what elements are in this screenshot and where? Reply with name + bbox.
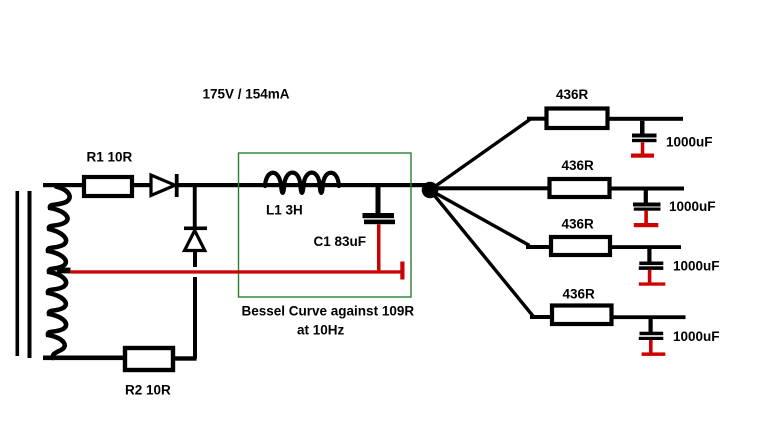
svg-text:1000uF: 1000uF — [669, 199, 716, 214]
wire bottom: transformer to R2 — [43, 356, 125, 361]
red wire end bar — [400, 262, 404, 280]
transformer T1 core line 1 — [16, 191, 20, 356]
wire branch2 horizontal — [430, 186, 548, 190]
capacitor C3 top lead — [644, 191, 648, 204]
svg-text:1000uF: 1000uF — [673, 329, 720, 344]
capacitor C2 top lead — [640, 121, 645, 134]
diode D2 anode lead from main wire — [193, 187, 197, 227]
wire branch1 right — [610, 117, 684, 121]
wire branch4 stub — [530, 315, 550, 319]
transformer T1 winding — [48, 187, 70, 359]
svg-text:1000uF: 1000uF — [673, 259, 720, 274]
resistor R4 — [550, 179, 610, 197]
capacitor C4 top lead — [647, 249, 651, 262]
capacitor C4 top plate — [639, 262, 663, 266]
wire R1 to D1 — [134, 183, 151, 187]
resistor R5 — [551, 237, 610, 255]
transformer centre-tap stub — [57, 268, 71, 274]
capacitor C2 top plate — [632, 134, 657, 138]
svg-text:Bessel Curve against 109R: Bessel Curve against 109R — [242, 304, 415, 319]
wire gap to bottom — [193, 277, 197, 359]
wire branch3 diagonal — [430, 190, 530, 246]
wire R2 right lead — [175, 356, 197, 360]
svg-text:R2 10R: R2 10R — [125, 383, 171, 398]
capacitor C3 red ground bar — [634, 223, 659, 227]
resistor R3 — [547, 109, 608, 129]
capacitor C5 bottom plate — [639, 337, 664, 340]
capacitor C5 red lead — [649, 340, 653, 353]
svg-text:R1 10R: R1 10R — [87, 150, 133, 165]
wire branch4 diagonal — [430, 190, 533, 317]
capacitor C2 red ground bar — [631, 154, 654, 158]
capacitor C1 bottom plate — [364, 220, 395, 225]
wire branch4 right — [614, 315, 686, 319]
svg-text:175V / 154mA: 175V / 154mA — [203, 86, 290, 101]
transformer T1 core line 2 — [28, 191, 32, 358]
capacitor C1 top lead — [376, 187, 381, 214]
capacitor C2 bottom plate — [632, 139, 657, 142]
capacitor C3 red lead — [644, 211, 648, 224]
svg-text:436R: 436R — [556, 87, 589, 102]
svg-text:436R: 436R — [562, 217, 595, 232]
wire branch2 right — [612, 187, 685, 191]
junction node — [422, 182, 439, 199]
capacitor C5 top lead — [649, 319, 653, 332]
wire branch1 diagonal — [430, 119, 531, 190]
capacitor C1 top plate — [363, 213, 395, 218]
svg-text:L1 3H: L1 3H — [266, 203, 303, 218]
diode D1 cathode bar — [175, 174, 179, 197]
inductor L1 — [265, 173, 339, 193]
green analysis box — [239, 153, 412, 297]
resistor R2 — [125, 348, 173, 370]
red centre-tap wire — [70, 270, 405, 273]
wire branch1 stub — [527, 117, 545, 121]
wire D2 to gap — [193, 251, 197, 268]
capacitor C4 red lead — [648, 270, 652, 283]
wire branch3 stub — [526, 245, 551, 249]
wire D1 to junction — [179, 183, 431, 187]
wire top: transformer to R1 — [43, 183, 84, 187]
svg-text:436R: 436R — [563, 287, 596, 302]
svg-text:436R: 436R — [562, 158, 595, 173]
svg-text:C1 83uF: C1 83uF — [314, 234, 367, 249]
capacitor C3 top plate — [633, 203, 661, 207]
diode D2 cathode bar — [184, 227, 207, 231]
resistor R1 — [84, 177, 132, 196]
wire branch3 right — [612, 245, 681, 249]
resistor R6 — [552, 306, 612, 325]
capacitor C5 red ground bar — [642, 352, 666, 356]
capacitor C4 red ground bar — [639, 282, 666, 285]
capacitor C1 red lead — [377, 224, 381, 273]
diode D1 — [151, 175, 175, 196]
svg-text:1000uF: 1000uF — [666, 135, 713, 150]
capacitor C5 top plate — [640, 332, 664, 336]
svg-text:at 10Hz: at 10Hz — [297, 323, 345, 338]
diode D2 triangle — [185, 231, 205, 251]
capacitor C3 bottom plate — [634, 208, 661, 211]
capacitor C4 bottom plate — [639, 266, 664, 270]
capacitor C2 red lead — [641, 142, 645, 154]
